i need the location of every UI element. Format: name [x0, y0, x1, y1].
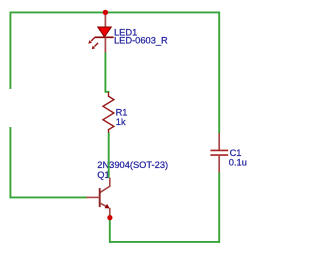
wire top net VCC — [10, 11, 220, 13]
svg-text:LED-0603_R: LED-0603_R — [114, 36, 168, 46]
transistor Q1 base pin — [86, 196, 99, 198]
wire right lower — [218, 172, 220, 243]
wire resistor to collector — [108, 132, 110, 178]
LED LED1 cathode bar — [95, 36, 114, 38]
junction dot top — [103, 10, 108, 15]
capacitor C1 top pin — [218, 133, 220, 150]
junction dot emitter — [107, 215, 112, 220]
capacitor C1 bottom plate — [210, 154, 228, 156]
svg-text:0.1u: 0.1u — [229, 157, 247, 167]
resistor R1 zigzag — [103, 92, 114, 133]
LED LED1 anode pin — [104, 12, 106, 27]
LED LED1 emission arrow 1 — [88, 37, 95, 44]
transistor Q1 emitter with arrow — [100, 203, 110, 215]
wire left lower — [9, 127, 11, 198]
transistor Q1 base bar — [99, 188, 101, 207]
wire right upper — [218, 12, 220, 134]
svg-text:1k: 1k — [116, 117, 126, 127]
transistor Q1 collector pin — [100, 178, 110, 193]
capacitor C1 top plate — [210, 149, 228, 151]
LED LED1 cathode pin — [104, 37, 106, 52]
wire left upper — [9, 12, 11, 89]
wire LED cathode to resistor with jog — [105, 52, 108, 92]
wire bottom — [109, 241, 220, 243]
wire bottom-left to base — [10, 196, 87, 198]
LED LED1 triangle — [98, 27, 111, 37]
LED LED1 emission arrow 2 — [92, 43, 99, 49]
wire emitter to bottom — [109, 214, 111, 243]
capacitor C1 bottom pin — [218, 155, 220, 172]
